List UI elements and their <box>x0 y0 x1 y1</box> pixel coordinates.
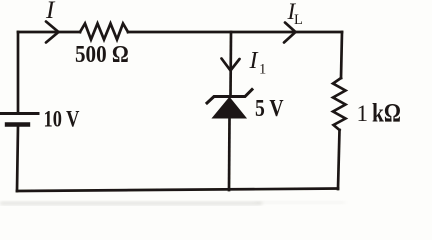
wire top-left segment <box>18 31 80 34</box>
scan shadow streak fading right <box>255 202 345 204</box>
zener diode D1 anode triangle (filled, apex up) <box>213 98 247 119</box>
svg-text:kΩ: kΩ <box>372 100 401 128</box>
zener diode D1 cathode bar with bent tails <box>207 90 252 104</box>
svg-text:I: I <box>249 48 259 74</box>
scan shadow streak along bottom-left <box>0 202 262 205</box>
svg-text:I: I <box>45 0 56 24</box>
wire battery to bottom <box>17 126 18 191</box>
svg-text:1: 1 <box>357 101 369 126</box>
wire left side <box>17 32 20 113</box>
current arrow IL (chevron on top-right wire) <box>284 23 296 43</box>
current arrow I1 (chevron pointing down on middle branch) <box>222 59 240 71</box>
battery V1 positive plate (long) <box>1 112 38 115</box>
resistor R2 1 kilo-ohm (zigzag) <box>333 78 346 130</box>
svg-text:10 V: 10 V <box>44 106 80 133</box>
wire right side upper <box>341 32 342 78</box>
svg-text:L: L <box>294 12 303 28</box>
svg-text:500 Ω: 500 Ω <box>75 41 129 68</box>
wire right side lower <box>338 130 340 189</box>
wire middle branch lower <box>228 118 231 190</box>
resistor R1 500 ohm (zigzag) <box>80 24 128 40</box>
wire middle branch upper <box>229 32 232 96</box>
svg-text:1: 1 <box>259 62 266 78</box>
wire bottom <box>17 189 338 192</box>
current arrow I (chevron on top-left wire) <box>46 22 59 43</box>
svg-text:5 V: 5 V <box>255 94 284 121</box>
battery V1 negative plate (short) <box>7 122 28 126</box>
wire top-right segment <box>128 31 342 34</box>
